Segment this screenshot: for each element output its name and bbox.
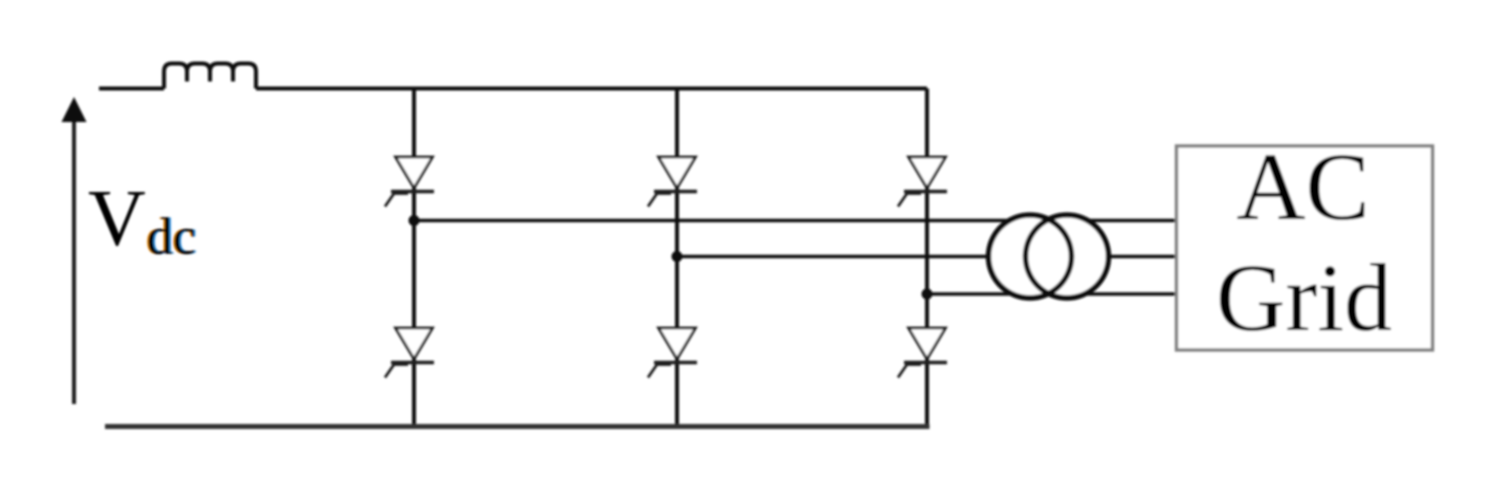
svg-text:dc: dc: [147, 209, 196, 266]
svg-text:Grid: Grid: [1216, 244, 1392, 351]
svg-text:V: V: [88, 175, 146, 263]
svg-text:AC: AC: [1236, 133, 1369, 240]
